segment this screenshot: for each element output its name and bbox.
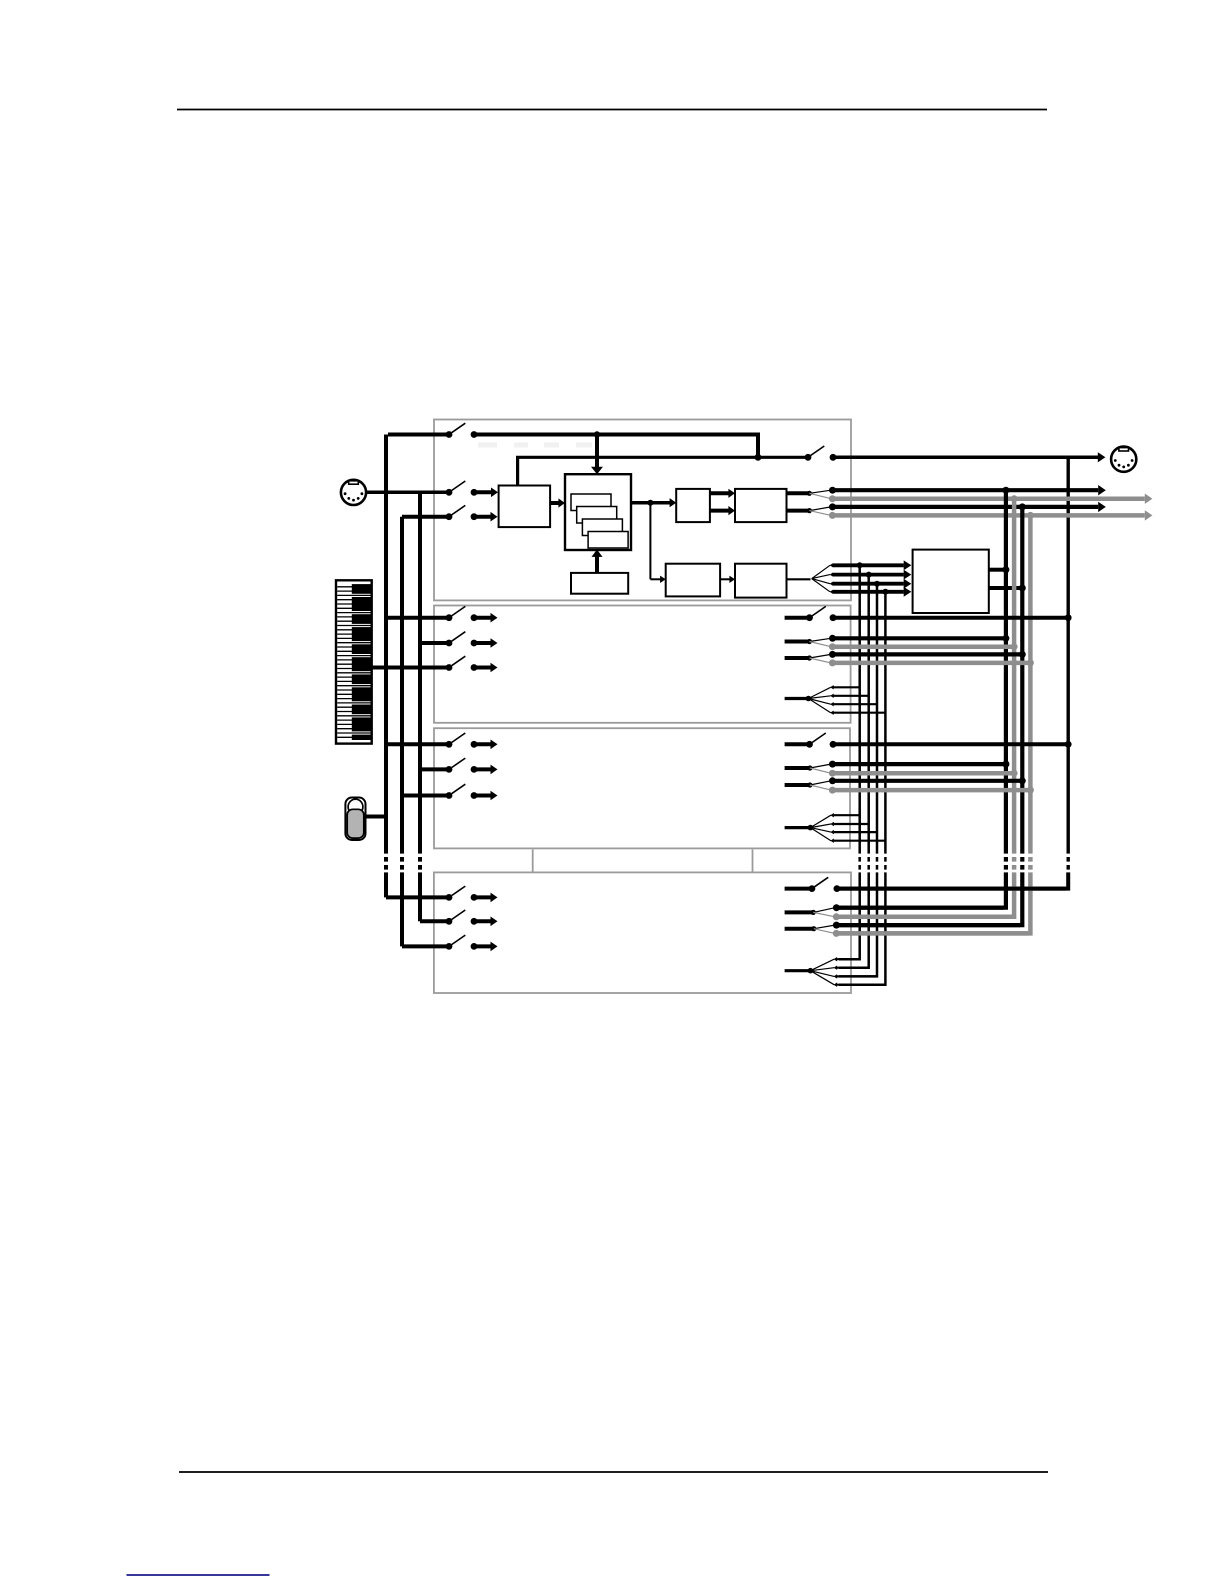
switch S3 row1 (386, 733, 498, 749)
box B (735, 489, 787, 522)
wire box B lower output fan (787, 503, 837, 519)
wire merge vert 4 (884, 592, 887, 849)
wire bus1 (keyboard/pedal bus) (384, 435, 388, 850)
junction vert2 top (866, 572, 872, 578)
wire MIDI IN to switch (366, 491, 449, 495)
switch S3 out (785, 733, 837, 748)
wire S3 gray A (832, 771, 1014, 776)
stack card 2 (577, 507, 617, 524)
switch SW-midi-in (446, 481, 498, 497)
wire box B upper output fan (787, 487, 837, 503)
wire box E output lower (989, 586, 1021, 590)
switch SW-bus2 (402, 505, 498, 521)
wire merge line 4 into box E (833, 590, 904, 594)
junction stack-arrow tap (594, 431, 600, 437)
junction S2 trunk (1065, 614, 1072, 621)
wire audio gray lower (832, 513, 1144, 518)
box C (666, 564, 720, 597)
fan split point (812, 563, 834, 594)
switch S2 row2 (420, 632, 498, 648)
junction vert1 top (857, 562, 863, 568)
page top rule (177, 109, 1047, 111)
wire gray bus B (1028, 515, 1033, 849)
wire S3 row3 output fan (785, 777, 836, 793)
junction merge at out line (755, 454, 762, 461)
junction S3 gray B (1027, 787, 1034, 794)
wire S4 merge fan (785, 957, 886, 987)
box control (571, 573, 628, 594)
wire S4 row1 to trunk (837, 887, 1066, 891)
wire black bus A (1004, 490, 1008, 849)
wire merge vert 2 (867, 575, 870, 849)
wire S3 gray B (832, 788, 1030, 793)
wire black bus B (1020, 507, 1024, 849)
switch SW-midi-out (805, 446, 837, 461)
wire gray bus A (1012, 499, 1017, 849)
arrow C-D (720, 578, 729, 580)
wire S3 merge fan (785, 813, 886, 843)
wire merge line 1 into box E (833, 563, 904, 567)
wire S4 black B (836, 923, 1021, 927)
wire pedal to bus1 (366, 815, 389, 819)
arrow A-B upper (710, 491, 729, 495)
wire box1 output to out line (518, 457, 806, 485)
stack card 1 (571, 494, 611, 511)
wire S2 merge fan (785, 685, 886, 715)
wire merge vert 3 (876, 584, 879, 849)
continuation tick right (752, 850, 754, 872)
switch S4 row2 (420, 910, 498, 926)
wire local-switch line to merge (474, 435, 758, 458)
wire box D output (787, 578, 811, 580)
wire S3 black B (833, 779, 1023, 783)
junction S3 gray A (1011, 770, 1018, 777)
junction vert3 top (874, 581, 880, 587)
junction S2 black A (1002, 635, 1009, 642)
wire to MIDI OUT (833, 456, 1098, 460)
junction gray bus B tap (1027, 512, 1034, 519)
MIDI IN connector (341, 480, 366, 505)
junction S3 black B (1019, 777, 1026, 784)
wire S2 row2 output fan (785, 635, 836, 650)
stack card 4 (588, 532, 628, 549)
junction S2 gray B (1027, 659, 1034, 666)
wire bus2 (400, 517, 404, 849)
junction vert4 top (882, 589, 888, 595)
junction black bus A tap (1002, 487, 1009, 494)
box1 input processor (499, 486, 550, 528)
MIDI OUT connector (1111, 447, 1136, 472)
wire S2 row1 to trunk (833, 616, 1068, 620)
box A (676, 489, 710, 522)
wire S2 black B (833, 652, 1023, 656)
wire S4 black A (836, 906, 1004, 910)
wire MIDI OUT trunk vertical (1066, 457, 1069, 849)
junction E-out lower on black bus B (1019, 585, 1026, 592)
section box 2 (part 1) (434, 606, 851, 723)
switch S4 out (785, 877, 841, 892)
switch S2 row3 (446, 656, 498, 672)
wire S4 row2 output fan (785, 904, 840, 920)
faint label smudges (478, 443, 592, 448)
wire S3 black A (833, 762, 1006, 766)
page bottom rule (179, 1471, 1048, 1473)
switch S2 row1 (386, 606, 498, 622)
switch S3 row3 (402, 784, 498, 800)
box E mixer (913, 550, 989, 613)
keyboard (336, 580, 372, 743)
junction S3 black A (1002, 761, 1009, 768)
stack card 3 (582, 519, 622, 536)
wire S4 row3 output fan (785, 922, 840, 937)
arrow down into message stack (595, 435, 599, 468)
wire MIDI-echo black upper (833, 488, 1099, 492)
box message stack container (565, 474, 631, 550)
wire S4 gray A (836, 915, 1012, 920)
arrow into box C (650, 578, 660, 580)
wire merge vert 1 (858, 565, 861, 849)
wire box E output upper (989, 568, 1004, 572)
wire S2 black A (833, 636, 1006, 640)
switch S4 row1 (386, 886, 498, 902)
pedal switch (345, 798, 365, 841)
wire S3 row2 output fan (785, 761, 836, 777)
wire S2 row3 output fan (785, 651, 836, 667)
arrow to box A (650, 501, 670, 505)
section box 1 (MIDI processing section) (434, 420, 851, 601)
junction gray bus A tap (1011, 495, 1018, 502)
junction black bus B tap (1019, 503, 1026, 510)
section box 3 (part 2) (434, 728, 850, 848)
wire S2 gray B (832, 661, 1030, 666)
footer blue link rule (127, 1574, 270, 1576)
wire S2 gray A (832, 644, 1014, 649)
wire S3 row1 to trunk (833, 742, 1068, 746)
wire MIDI-echo black lower (833, 505, 1099, 509)
junction S2 gray A (1011, 643, 1018, 650)
junction stack output split (647, 500, 653, 506)
wire stack output (631, 501, 648, 505)
wire bus3 (MIDI IN bus) (418, 492, 422, 849)
arrow A-B lower (710, 509, 729, 513)
switch S4 row3 (402, 935, 498, 951)
section box 4 (part n) (434, 872, 851, 993)
wire audio gray upper (832, 496, 1144, 501)
switch S3 row2 (420, 758, 498, 774)
arrow box1 to stack (550, 501, 559, 505)
continuation tick left (532, 850, 534, 872)
switch SW-local (keyboard bus) (388, 423, 477, 438)
arrow control to stack (595, 556, 599, 573)
junction S2 black B (1019, 651, 1026, 658)
junction S3 trunk (1065, 741, 1072, 748)
wire merge line 3 into box E (833, 582, 904, 586)
wire S4 gray B (836, 931, 1029, 936)
switch S2 out (785, 606, 837, 621)
junction E-out upper on black bus A (1002, 566, 1009, 573)
wire keyboard feed (372, 666, 449, 670)
wire merge line 2 into box E (833, 573, 904, 577)
box D (735, 564, 787, 598)
wire split down to box C (649, 503, 651, 580)
